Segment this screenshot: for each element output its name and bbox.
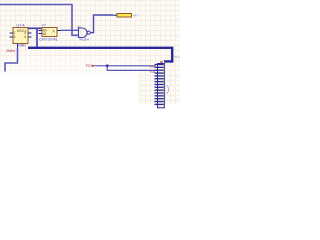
pin 2 (crystal left bottom) xyxy=(39,33,43,35)
pin 1 (crystal left top) xyxy=(39,30,43,32)
pin 2 (left) xyxy=(10,36,14,38)
wire top rail to gate input xyxy=(0,5,79,36)
svg-text:OSC1: OSC1 xyxy=(17,29,26,33)
resistor R? body xyxy=(117,14,132,18)
IC U?-A body xyxy=(13,28,28,44)
pin 7 (bottom of U?-A) xyxy=(17,44,19,49)
svg-text:CRYSTAL: CRYSTAL xyxy=(39,38,58,42)
svg-text:4MHz: 4MHz xyxy=(6,49,15,53)
pin 4 (right) xyxy=(28,36,32,38)
crystal Y? body xyxy=(42,28,57,37)
pin 1 (left) xyxy=(10,32,14,34)
connector J? body xyxy=(158,64,165,108)
port diamond marker xyxy=(92,65,95,67)
wire crystal to gate U?-B input xyxy=(61,29,79,31)
nand gate U?-B body xyxy=(79,28,88,38)
svg-text:4K7: 4K7 xyxy=(133,14,139,18)
pin 3 (crystal right) xyxy=(57,30,61,32)
svg-text:A1: A1 xyxy=(43,32,47,36)
thick bus wire xyxy=(28,48,172,62)
wire gate output up to resistor xyxy=(90,15,113,33)
svg-text:GND: GND xyxy=(18,43,26,47)
svg-text:P1.0: P1.0 xyxy=(174,55,180,59)
wire from U?-A bottom pin to lower left xyxy=(5,48,18,72)
svg-text:U?-A: U?-A xyxy=(17,23,26,27)
wire U?-A to crystal Y1 xyxy=(28,27,43,29)
svg-text:3: 3 xyxy=(14,35,16,39)
svg-text:P3.0: P3.0 xyxy=(86,64,93,68)
gate output bubble xyxy=(87,31,90,34)
no-ERC marker on connector pin 1 xyxy=(160,61,162,63)
pin 3 (right) xyxy=(28,32,32,34)
wire to connector pin 1 xyxy=(95,65,156,67)
svg-text:74LS04: 74LS04 xyxy=(79,38,89,42)
svg-text:6: 6 xyxy=(24,35,26,39)
junction node xyxy=(106,64,109,67)
lead of resistor xyxy=(113,14,117,16)
connector pins ladder xyxy=(155,65,164,105)
wire branch to connector pin 2 xyxy=(107,66,155,71)
svg-text:Y?: Y? xyxy=(42,24,46,28)
bracket arc right of connector xyxy=(167,85,169,94)
wire branch down to bus xyxy=(36,28,38,47)
schematic sheet grid xyxy=(0,0,180,75)
